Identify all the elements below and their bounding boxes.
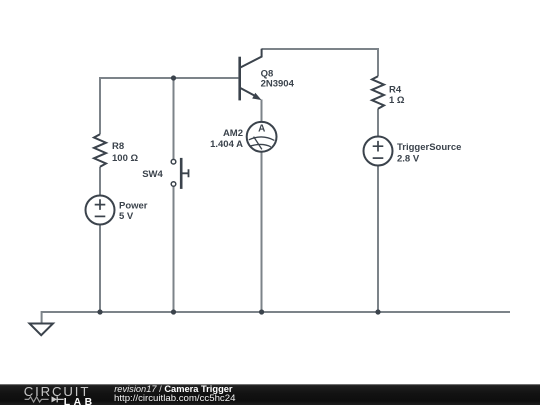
- svg-text:http://circuitlab.com/cc5hc24: http://circuitlab.com/cc5hc24: [114, 393, 236, 404]
- logo squiggle resistor: [25, 397, 49, 402]
- wire ground stub: [41, 311, 43, 324]
- resistor R4: [372, 76, 384, 108]
- svg-text:1 Ω: 1 Ω: [389, 95, 405, 106]
- wire R8 top stub: [99, 77, 101, 134]
- logo diode: [52, 396, 58, 402]
- junction dot R8 ground: [97, 309, 102, 314]
- wire AM2 to ground rail: [261, 151, 263, 312]
- svg-text:5 V: 5 V: [119, 211, 134, 222]
- wire R4 to TriggerSource: [377, 109, 379, 137]
- transistor Q8 emitter arrow: [252, 93, 261, 100]
- components (dark): [30, 49, 393, 336]
- svg-text:2.8 V: 2.8 V: [397, 154, 420, 165]
- svg-text:2N3904: 2N3904: [261, 79, 295, 90]
- wire R4 top stub: [377, 48, 379, 76]
- wire base node: R8 top to Q8 base: [99, 77, 238, 79]
- junction dot AM2 ground: [259, 309, 264, 314]
- resistor R8: [94, 134, 106, 166]
- wire SW4 bottom terminal to ground rail: [173, 186, 175, 312]
- junction dot SW4 ground: [171, 309, 176, 314]
- wire emitter to AM2: [261, 100, 263, 123]
- ground symbol: [30, 324, 54, 336]
- junction dot TriggerSource ground: [375, 309, 380, 314]
- switch SW4 plunger bar: [180, 158, 183, 189]
- svg-text:AM2: AM2: [223, 128, 243, 139]
- wires (light gray): [42, 48, 510, 324]
- svg-text:1.404 A: 1.404 A: [210, 139, 243, 150]
- wire collector top run to R4: [262, 48, 379, 50]
- switch SW4 actuator: [183, 169, 189, 177]
- svg-text:SW4: SW4: [142, 169, 163, 180]
- svg-text:R8: R8: [112, 141, 124, 152]
- voltage source Power: [86, 196, 115, 225]
- svg-text:A: A: [258, 124, 265, 135]
- svg-text:R4: R4: [389, 84, 402, 95]
- svg-text:Power: Power: [119, 201, 148, 212]
- footer bar: [0, 384, 540, 405]
- voltage source TriggerSource: [364, 137, 393, 166]
- svg-text:LAB: LAB: [64, 397, 96, 405]
- ammeter AM2: [247, 122, 277, 152]
- transistor Q8 collector leg: [241, 49, 262, 68]
- transistor Q8 emitter leg: [241, 88, 256, 96]
- svg-text:TriggerSource: TriggerSource: [397, 142, 461, 153]
- svg-text:100 Ω: 100 Ω: [112, 153, 138, 164]
- wire base node to SW4 top terminal: [173, 78, 175, 159]
- wire Power to ground rail: [99, 224, 101, 312]
- wire ground rail: [42, 311, 510, 313]
- transistor Q8 base bar: [238, 57, 241, 101]
- wire R8 to Power: [99, 167, 101, 196]
- switch SW4 bottom terminal: [171, 182, 176, 187]
- switch SW4 top terminal: [171, 159, 176, 164]
- junction dot base node: [171, 75, 176, 80]
- wire TriggerSource to ground rail: [377, 165, 379, 312]
